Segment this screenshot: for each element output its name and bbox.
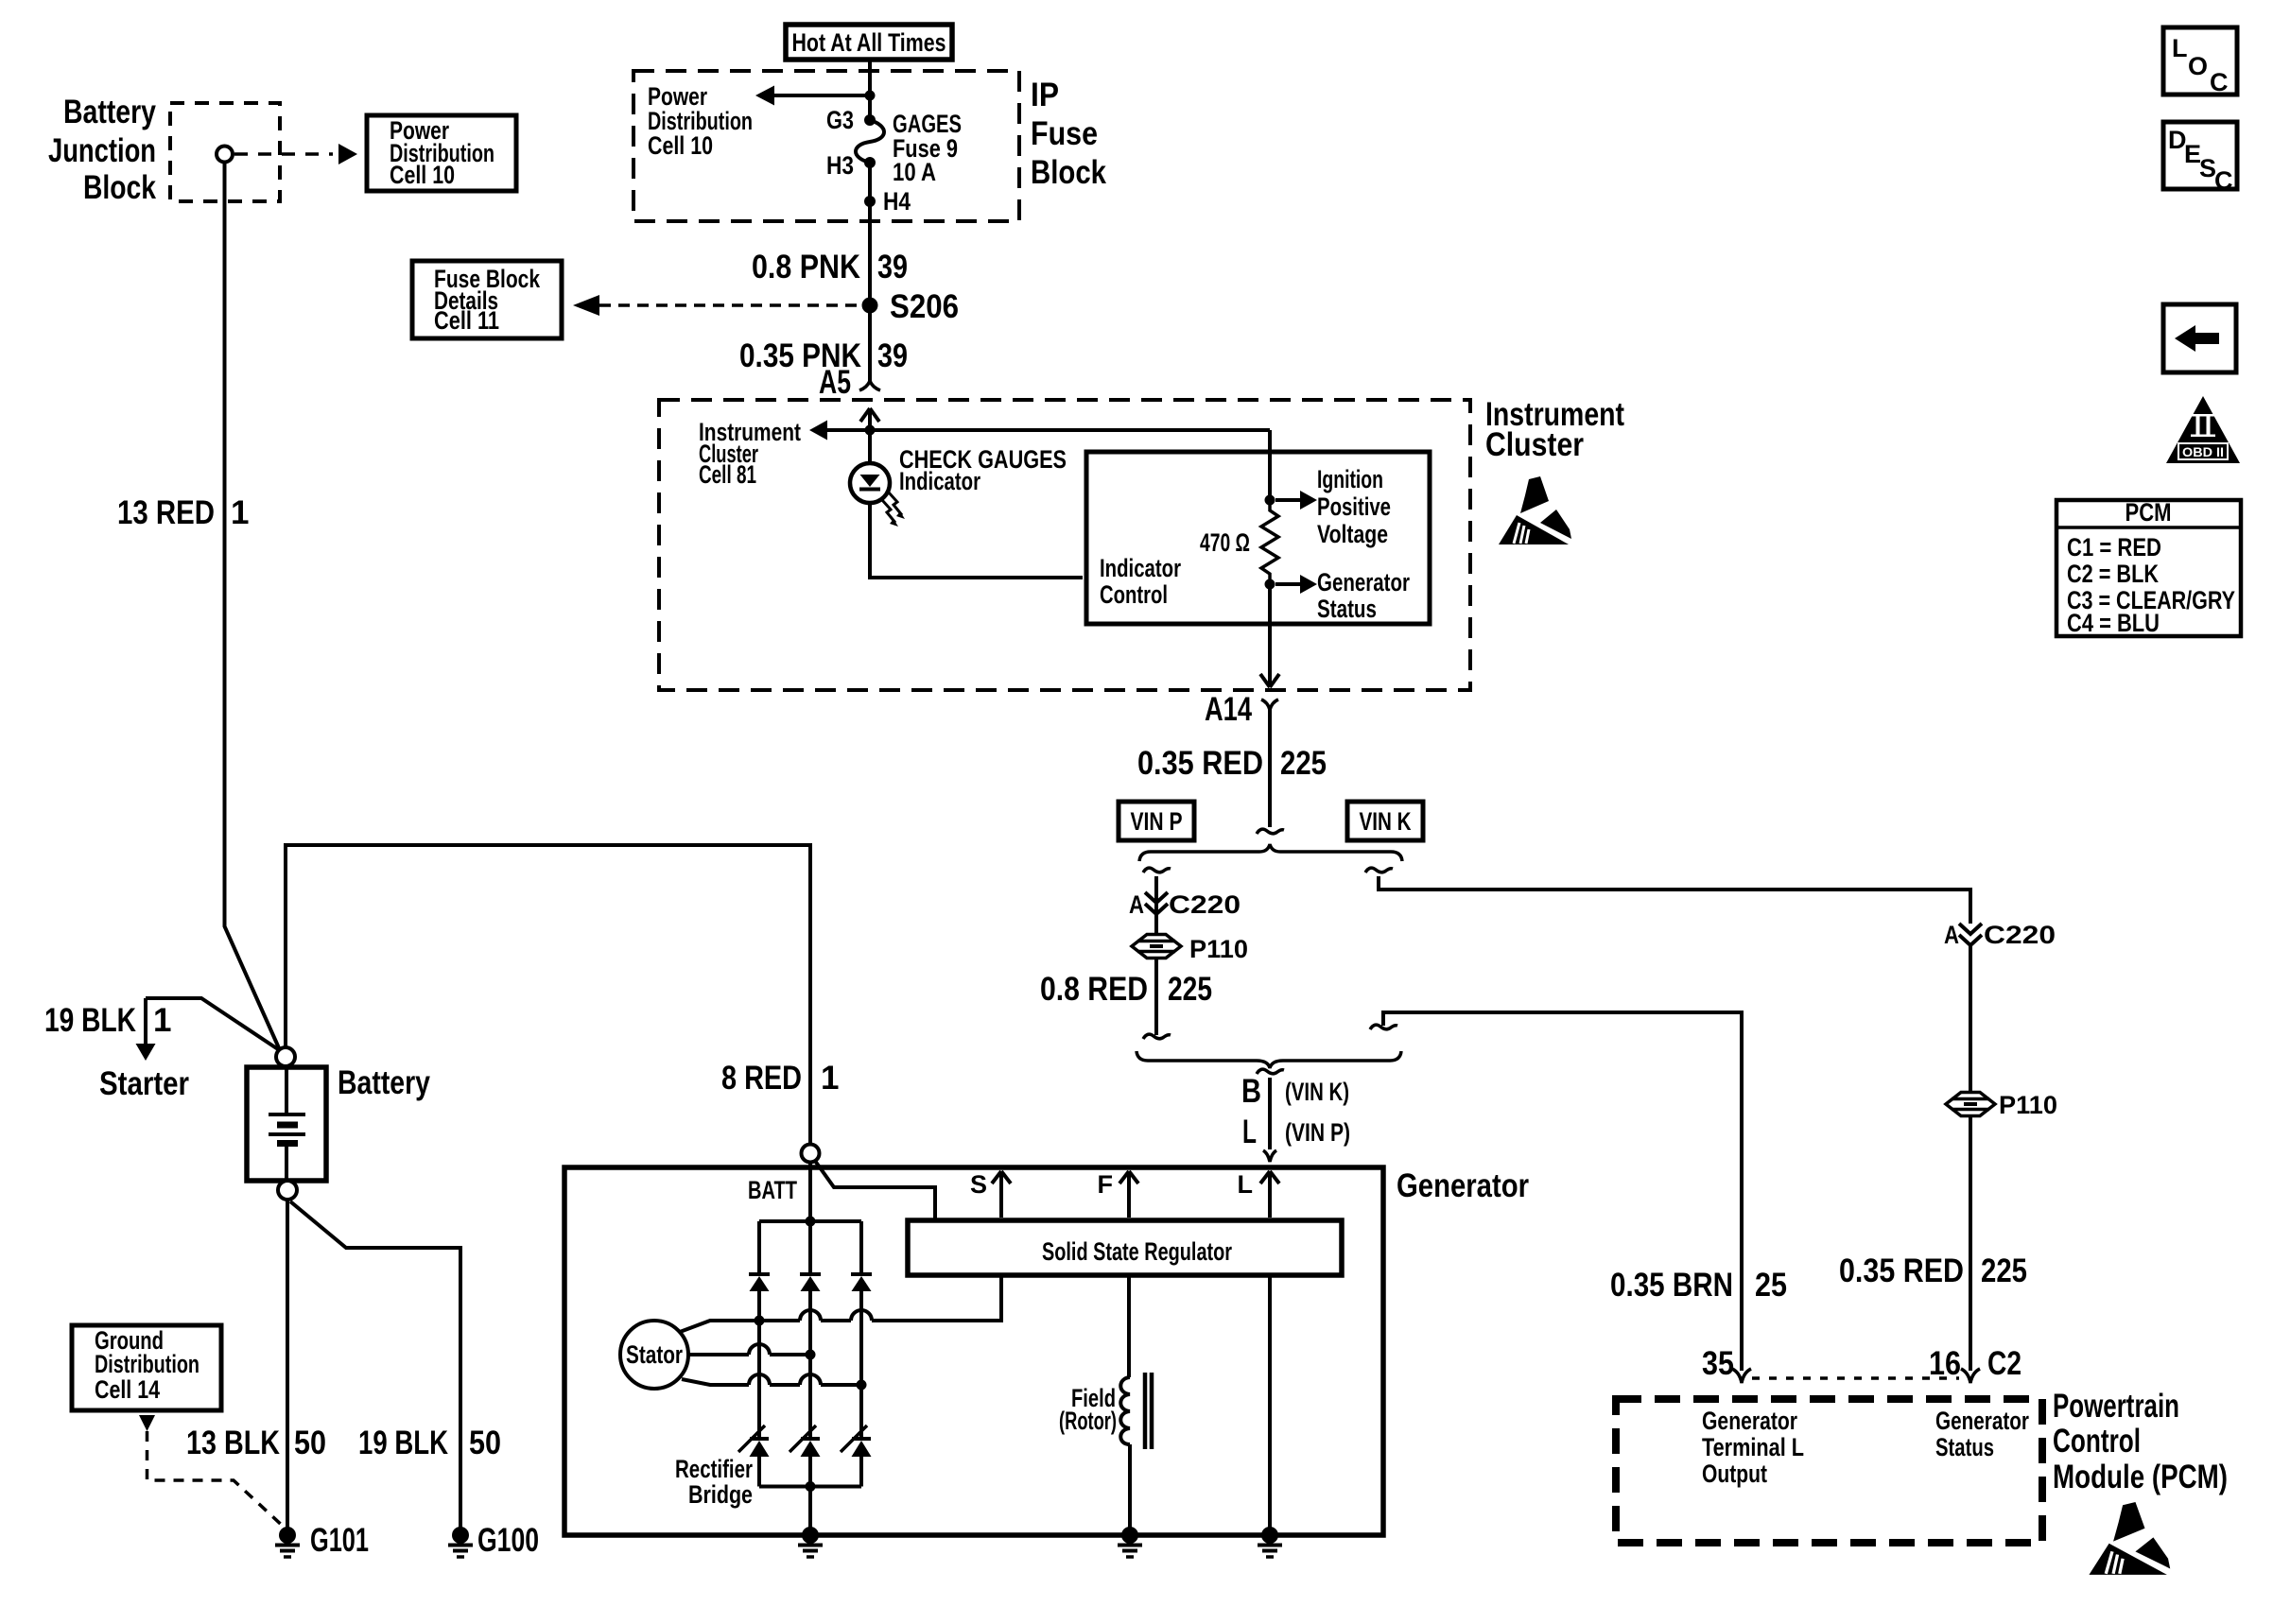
svg-text:PCM: PCM: [2126, 498, 2172, 527]
svg-text:Status: Status: [1317, 595, 1377, 623]
svg-text:IP: IP: [1031, 77, 1059, 113]
svg-text:VIN P: VIN P: [1131, 807, 1183, 836]
svg-text:50: 50: [469, 1425, 501, 1461]
svg-text:L: L: [1238, 1170, 1254, 1199]
svg-text:A: A: [1944, 921, 1959, 949]
svg-text:(VIN K): (VIN K): [1285, 1078, 1349, 1106]
svg-text:G3: G3: [826, 106, 854, 134]
svg-text:225: 225: [1280, 745, 1327, 782]
svg-text:Fuse: Fuse: [1031, 115, 1098, 152]
svg-text:Junction: Junction: [48, 132, 156, 169]
svg-text:Indicator: Indicator: [899, 467, 980, 495]
svg-text:Generator: Generator: [1702, 1407, 1797, 1435]
svg-text:1: 1: [153, 1002, 171, 1039]
svg-text:C: C: [2210, 68, 2229, 96]
svg-text:Cell 10: Cell 10: [390, 161, 455, 189]
svg-text:470 Ω: 470 Ω: [1200, 528, 1250, 557]
svg-text:S206: S206: [890, 288, 959, 325]
svg-text:25: 25: [1755, 1267, 1787, 1304]
svg-text:C1 = RED: C1 = RED: [2067, 533, 2161, 561]
svg-text:G100: G100: [477, 1522, 539, 1559]
svg-text:Rectifier: Rectifier: [675, 1455, 753, 1483]
svg-text:Starter: Starter: [99, 1065, 189, 1102]
svg-text:Output: Output: [1702, 1460, 1767, 1488]
svg-text:Control: Control: [1100, 580, 1168, 609]
svg-text:Cell 10: Cell 10: [648, 131, 713, 160]
svg-text:19 BLK: 19 BLK: [358, 1425, 448, 1461]
svg-text:Generator: Generator: [1935, 1407, 2029, 1435]
svg-text:A5: A5: [819, 364, 851, 401]
svg-text:13 RED: 13 RED: [117, 494, 215, 531]
svg-text:Cell 11: Cell 11: [434, 306, 499, 335]
svg-text:Generator: Generator: [1317, 568, 1410, 596]
svg-text:0.8 PNK: 0.8 PNK: [752, 249, 860, 285]
svg-text:10 A: 10 A: [893, 158, 936, 186]
svg-text:Battery: Battery: [338, 1064, 430, 1101]
svg-text:Stator: Stator: [626, 1340, 683, 1369]
svg-text:H4: H4: [883, 187, 911, 216]
svg-text:(Rotor): (Rotor): [1059, 1407, 1117, 1435]
svg-text:Solid State Regulator: Solid State Regulator: [1042, 1237, 1232, 1266]
svg-text:39: 39: [877, 337, 908, 374]
svg-text:Status: Status: [1935, 1433, 1994, 1461]
svg-text:S: S: [970, 1170, 987, 1199]
svg-text:Hot At All Times: Hot At All Times: [792, 28, 946, 57]
svg-text:P110: P110: [1999, 1091, 2057, 1119]
svg-text:L: L: [1242, 1114, 1257, 1150]
svg-text:A14: A14: [1205, 691, 1252, 728]
svg-text:Cluster: Cluster: [1485, 426, 1584, 463]
svg-text:P110: P110: [1189, 935, 1248, 963]
svg-text:(VIN P): (VIN P): [1285, 1118, 1350, 1147]
svg-text:35: 35: [1702, 1345, 1734, 1382]
svg-text:1: 1: [231, 494, 249, 531]
svg-text:Distribution: Distribution: [95, 1350, 200, 1378]
svg-text:C220: C220: [1169, 890, 1241, 919]
svg-text:F: F: [1098, 1170, 1114, 1199]
svg-text:C2: C2: [1987, 1345, 2021, 1382]
svg-text:Cell 14: Cell 14: [95, 1375, 160, 1404]
svg-text:C4 = BLU: C4 = BLU: [2067, 609, 2160, 637]
svg-text:50: 50: [294, 1425, 326, 1461]
svg-text:0.8 RED: 0.8 RED: [1040, 971, 1148, 1008]
svg-text:Indicator: Indicator: [1100, 554, 1181, 582]
svg-text:BATT: BATT: [748, 1176, 797, 1204]
svg-text:225: 225: [1981, 1253, 2027, 1289]
svg-text:Block: Block: [1031, 154, 1106, 191]
svg-text:225: 225: [1168, 971, 1212, 1008]
svg-text:L: L: [2172, 34, 2188, 62]
svg-text:Battery: Battery: [63, 94, 156, 130]
svg-text:Module (PCM): Module (PCM): [2053, 1459, 2228, 1495]
svg-text:Powertrain: Powertrain: [2053, 1388, 2179, 1425]
svg-text:Bridge: Bridge: [688, 1480, 753, 1509]
svg-text:B: B: [1241, 1073, 1261, 1110]
svg-text:C2 = BLK: C2 = BLK: [2067, 560, 2159, 588]
svg-text:19 BLK: 19 BLK: [44, 1002, 136, 1039]
svg-text:Cell 81: Cell 81: [699, 460, 756, 489]
svg-text:A: A: [1129, 890, 1144, 919]
svg-text:0.35 BRN: 0.35 BRN: [1610, 1267, 1733, 1304]
svg-text:C: C: [2214, 166, 2233, 195]
svg-text:Voltage: Voltage: [1317, 520, 1388, 548]
svg-text:16: 16: [1929, 1345, 1961, 1382]
svg-text:O: O: [2188, 52, 2208, 80]
svg-text:8 RED: 8 RED: [721, 1060, 802, 1097]
svg-text:Block: Block: [83, 169, 156, 206]
svg-text:OBD II: OBD II: [2182, 444, 2224, 459]
svg-text:13 BLK: 13 BLK: [186, 1425, 280, 1461]
svg-text:39: 39: [877, 249, 908, 285]
svg-text:0.35 RED: 0.35 RED: [1839, 1253, 1964, 1289]
svg-text:0.35 RED: 0.35 RED: [1137, 745, 1263, 782]
svg-text:Ignition: Ignition: [1317, 465, 1383, 493]
svg-text:1: 1: [821, 1060, 839, 1097]
svg-text:Positive: Positive: [1317, 492, 1391, 521]
svg-text:Terminal L: Terminal L: [1702, 1433, 1804, 1461]
svg-text:C220: C220: [1984, 921, 2056, 949]
svg-text:G101: G101: [310, 1522, 369, 1559]
svg-text:Generator: Generator: [1397, 1167, 1529, 1204]
svg-text:VIN K: VIN K: [1360, 807, 1412, 836]
svg-text:Control: Control: [2053, 1423, 2141, 1460]
svg-text:H3: H3: [826, 151, 854, 180]
